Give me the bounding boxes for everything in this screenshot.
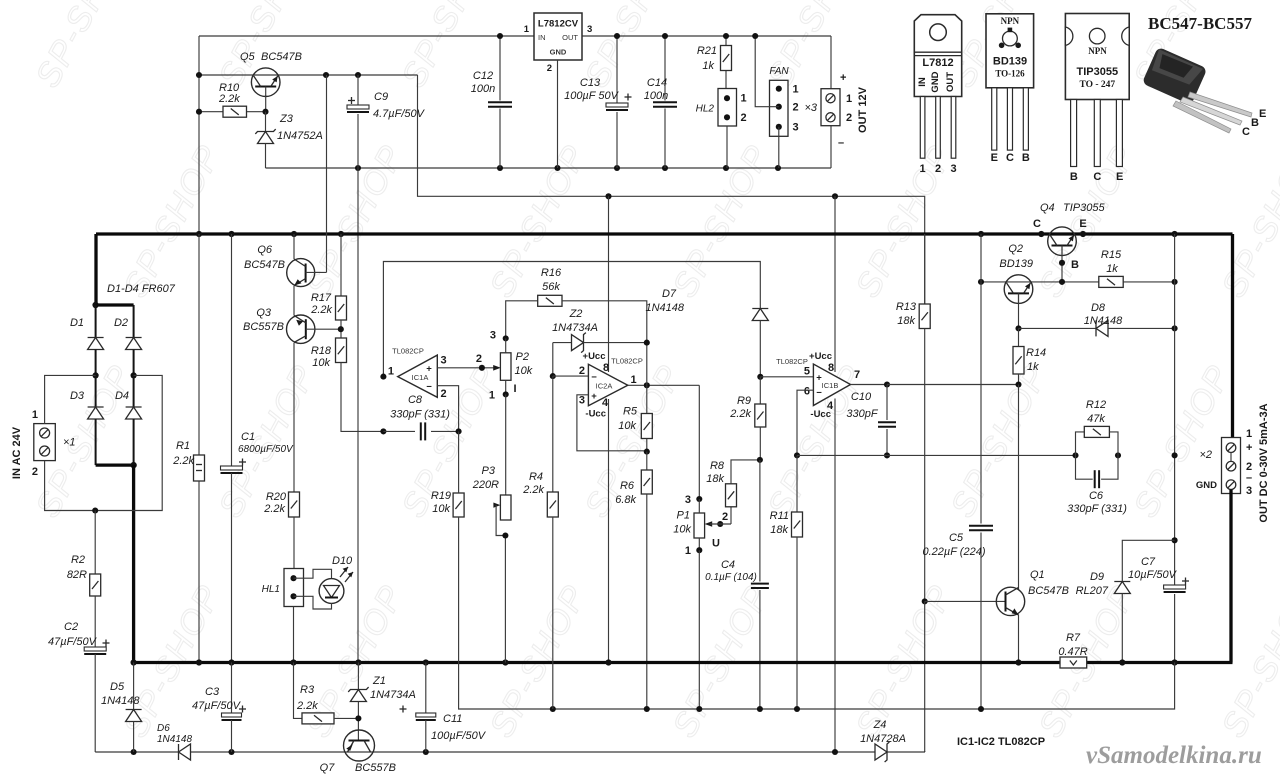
- svg-text:3: 3: [441, 355, 447, 367]
- wire IC2A out to P1 top: [698, 385, 700, 499]
- svg-text:L7812: L7812: [922, 57, 953, 69]
- svg-text:R1: R1: [176, 440, 190, 452]
- capacitor C4: [759, 460, 761, 582]
- capacitor C8: [380, 428, 386, 434]
- wire Q6 collector to 12V: [326, 75, 328, 272]
- svg-text:3: 3: [490, 330, 496, 342]
- svg-text:Z2: Z2: [569, 308, 583, 320]
- node Z1 R3 junction: [355, 715, 361, 721]
- svg-text:C: C: [1242, 126, 1250, 138]
- node Q2 base D8 junction: [1015, 325, 1021, 331]
- svg-text:1N4148: 1N4148: [157, 734, 192, 745]
- svg-text:R16: R16: [541, 267, 562, 279]
- svg-text:100n: 100n: [644, 90, 668, 102]
- node IC1B output: [884, 381, 890, 387]
- resistor R8: [730, 507, 732, 524]
- svg-text:1: 1: [524, 24, 530, 35]
- svg-text:OUT: OUT: [562, 33, 578, 42]
- svg-text:R6: R6: [620, 480, 635, 492]
- svg-text:OUT DC 0-30V 5mA-3A: OUT DC 0-30V 5mA-3A: [1258, 403, 1270, 522]
- svg-text:2.2k: 2.2k: [729, 408, 751, 420]
- svg-text:TIP3055: TIP3055: [1063, 202, 1105, 214]
- node main bus junctions: [196, 231, 202, 237]
- svg-text:Q5: Q5: [240, 51, 256, 63]
- svg-text:47k: 47k: [1087, 413, 1105, 425]
- svg-text:2: 2: [476, 353, 482, 365]
- svg-text:+: +: [840, 72, 846, 84]
- svg-text:0.47R: 0.47R: [1058, 646, 1087, 658]
- svg-text:Q7: Q7: [320, 762, 336, 774]
- wire left vertical from rail to main bus: [198, 36, 200, 234]
- svg-text:BC547B: BC547B: [244, 259, 285, 271]
- svg-text:Z3: Z3: [279, 113, 294, 125]
- svg-text:+: +: [426, 364, 432, 375]
- svg-text:10k: 10k: [312, 357, 330, 369]
- svg-text:56k: 56k: [542, 281, 560, 293]
- wire lower rail y752: [95, 751, 178, 753]
- wire X1 pin2 loop to bridge right: [45, 375, 163, 510]
- svg-text:2: 2: [935, 163, 941, 175]
- svg-text:E: E: [991, 152, 998, 164]
- svg-text:vSamodelkina.ru: vSamodelkina.ru: [1086, 742, 1262, 769]
- svg-text:IN: IN: [538, 33, 546, 42]
- svg-text:×3: ×3: [804, 102, 817, 114]
- node Q1 base junction: [922, 598, 928, 604]
- svg-text:E: E: [1259, 108, 1266, 120]
- svg-text:1: 1: [32, 409, 38, 421]
- svg-text:18k: 18k: [897, 315, 915, 327]
- svg-text:−: −: [816, 388, 822, 399]
- package TIP3055 TO-247: [1065, 14, 1129, 100]
- wire +Ucc stub IC2A pin8: [608, 196, 610, 372]
- svg-text:−: −: [591, 372, 597, 383]
- svg-text:BC557B: BC557B: [355, 762, 396, 774]
- terminal X3 OUT 12V: [821, 89, 840, 126]
- svg-text:1: 1: [919, 163, 925, 175]
- wire Z2 left to IC2A pin2: [552, 343, 554, 377]
- diode D7: [752, 308, 768, 310]
- wire L7812 GND pin: [557, 60, 559, 168]
- diode D4: [133, 375, 135, 407]
- svg-text:0.22µF (224): 0.22µF (224): [922, 546, 985, 558]
- svg-text:2: 2: [579, 365, 585, 377]
- capacitor C3: [231, 663, 233, 714]
- svg-text:1: 1: [631, 374, 637, 386]
- svg-text:R13: R13: [896, 301, 917, 313]
- svg-text:220R: 220R: [472, 479, 499, 491]
- svg-text:D3: D3: [70, 390, 85, 402]
- svg-text:1N4734A: 1N4734A: [552, 322, 598, 334]
- wire bus to X2 plus: [1231, 234, 1234, 438]
- wire IC1A pin3 to P2 wiper: [437, 367, 497, 369]
- resistor R9: [759, 377, 761, 404]
- svg-text:R8: R8: [710, 460, 725, 472]
- svg-text:P2: P2: [516, 351, 529, 363]
- node bottom bus junctions: [131, 659, 137, 665]
- svg-text:2.2k: 2.2k: [263, 503, 285, 515]
- svg-text:C14: C14: [647, 77, 667, 89]
- resistor R4: [552, 376, 554, 492]
- svg-text:3: 3: [950, 163, 956, 175]
- svg-text:2.2k: 2.2k: [296, 700, 318, 712]
- svg-text:6: 6: [804, 385, 810, 397]
- wire IC1B output: [851, 384, 888, 386]
- svg-text:10k: 10k: [673, 524, 691, 536]
- svg-text:GND: GND: [930, 71, 941, 92]
- svg-text:E: E: [1116, 171, 1123, 183]
- svg-text:4.7µF/50V: 4.7µF/50V: [373, 108, 426, 120]
- svg-text:B: B: [1071, 259, 1079, 271]
- svg-text:BD139: BD139: [999, 258, 1033, 270]
- svg-text:U: U: [712, 538, 720, 550]
- wire X1 pin1 to bridge: [45, 375, 96, 423]
- svg-text:3: 3: [587, 24, 592, 35]
- svg-text:10µF/50V: 10µF/50V: [1128, 569, 1178, 581]
- wire bridge bottom link: [96, 463, 134, 466]
- capacitor C5: [980, 282, 982, 524]
- resistor R19: [453, 493, 464, 517]
- svg-text:C: C: [1006, 152, 1014, 164]
- wire to IC1B pin5: [760, 376, 813, 378]
- wire bridge feed from bus: [94, 234, 97, 305]
- wire minus rail y709: [459, 663, 1175, 710]
- regulator U1 L7812CV box: [534, 13, 582, 60]
- svg-text:1N4734A: 1N4734A: [370, 689, 416, 701]
- wire P1 wiper to R8: [717, 521, 723, 527]
- svg-text:C: C: [1033, 218, 1041, 230]
- svg-text:5: 5: [804, 366, 810, 378]
- wire Q5 collector-emitter rail y75: [199, 74, 418, 76]
- svg-text:Q6: Q6: [257, 244, 273, 256]
- svg-text:6800µF/50V: 6800µF/50V: [238, 444, 294, 455]
- svg-text:I: I: [514, 383, 517, 395]
- LED D10: [294, 569, 332, 579]
- wire R14 node to Q1 collector: [1018, 385, 1020, 591]
- svg-text:1N4148: 1N4148: [645, 302, 684, 314]
- svg-text:C9: C9: [374, 91, 388, 103]
- svg-text:2: 2: [441, 388, 447, 400]
- zener diode Z4: [885, 742, 890, 762]
- svg-text:1N4148: 1N4148: [101, 695, 140, 707]
- wire FAN pin2 to rail: [755, 36, 779, 107]
- svg-text:18k: 18k: [706, 473, 724, 485]
- capacitor C13: [616, 36, 618, 103]
- svg-text:C4: C4: [721, 559, 735, 571]
- wire Q3 collector down to R20: [293, 343, 295, 492]
- svg-text:–: –: [1246, 472, 1252, 484]
- wire Q6 Q3 R20 branch from bus: [293, 234, 295, 259]
- diode D1: [95, 305, 97, 338]
- wire IC2A pin3 loop: [577, 395, 647, 451]
- svg-text:100µF 50V: 100µF 50V: [564, 90, 620, 102]
- svg-text:3: 3: [579, 395, 585, 407]
- wire output node vertical: [646, 343, 648, 386]
- svg-text:BC547B: BC547B: [261, 51, 302, 63]
- node R11 pin6 junction: [794, 452, 800, 458]
- wire IC2A pin4 to bus: [608, 399, 610, 663]
- terminal X1 IN AC 24V: [34, 424, 56, 461]
- svg-text:1k: 1k: [702, 60, 714, 72]
- wire feedback rail y455: [797, 454, 1076, 456]
- zener diode Z2: [553, 342, 572, 344]
- svg-text:3: 3: [1246, 485, 1252, 497]
- node bridge top: [92, 302, 98, 308]
- svg-text:C13: C13: [580, 77, 601, 89]
- wire long vertical x358 to bottom bus: [357, 168, 359, 663]
- node +Ucc taps: [605, 193, 611, 199]
- node R2 tap: [92, 507, 98, 513]
- svg-text:C7: C7: [1141, 556, 1156, 568]
- svg-text:R3: R3: [300, 684, 315, 696]
- svg-text:1k: 1k: [1106, 263, 1118, 275]
- svg-text:1: 1: [741, 93, 747, 105]
- svg-text:330pF: 330pF: [846, 408, 878, 420]
- svg-text:8: 8: [828, 362, 834, 374]
- node minus rail junctions: [550, 706, 556, 712]
- zener diode Z3: [265, 112, 267, 132]
- svg-text:2.2k: 2.2k: [218, 93, 240, 105]
- resistor R18: [336, 338, 347, 363]
- wire +Ucc stub IC1B pin8: [834, 196, 836, 372]
- svg-text:2.2k: 2.2k: [310, 304, 332, 316]
- node Q3 base junction: [338, 326, 344, 332]
- svg-text:2.2k: 2.2k: [172, 455, 194, 467]
- svg-text:IN: IN: [917, 77, 928, 87]
- node sense junction: [1172, 452, 1178, 458]
- lamp HL2 connector box: [718, 89, 737, 127]
- node R14 bottom junction: [1015, 381, 1021, 387]
- svg-text:C11: C11: [443, 713, 462, 725]
- svg-text:BC547B: BC547B: [1028, 585, 1069, 597]
- node R15 right junction: [1172, 279, 1178, 285]
- wire P3 bottom to bus: [504, 536, 506, 663]
- svg-text:330pF (331): 330pF (331): [390, 409, 450, 421]
- wire R13 down to Z4 corner: [924, 601, 926, 752]
- op-amp U3 IC2A: [588, 364, 627, 405]
- svg-text:C6: C6: [1089, 490, 1104, 502]
- zener diode Z1: [357, 663, 359, 690]
- svg-text:HL2: HL2: [696, 104, 715, 115]
- svg-text:C12: C12: [473, 70, 493, 82]
- svg-text:D7: D7: [662, 288, 677, 300]
- svg-text:1: 1: [489, 390, 495, 402]
- svg-text:OUT: OUT: [945, 72, 956, 92]
- svg-text:R14: R14: [1026, 347, 1046, 359]
- svg-text:P1: P1: [677, 510, 690, 522]
- svg-text:R17: R17: [311, 292, 332, 304]
- svg-text:+Ucc: +Ucc: [809, 351, 832, 362]
- capacitor C1: [231, 234, 233, 466]
- wire HL2 pin2 to rail: [726, 126, 728, 168]
- wire Q4 base: [1061, 246, 1063, 282]
- svg-text:R21: R21: [697, 45, 717, 57]
- svg-text:2: 2: [846, 112, 852, 124]
- svg-text:47µF/50V: 47µF/50V: [192, 700, 242, 712]
- svg-text:B: B: [1251, 117, 1259, 129]
- wire P1 bottom to minus rail: [698, 550, 700, 709]
- wire FAN pin3 to rail: [778, 127, 780, 168]
- wire Q2 base down: [1018, 294, 1020, 329]
- svg-text:3: 3: [685, 494, 691, 506]
- transistor Q3: [287, 315, 315, 343]
- svg-text:NPN: NPN: [1088, 46, 1107, 56]
- svg-text:+: +: [816, 373, 822, 384]
- svg-text:D6: D6: [157, 723, 170, 734]
- node IC1A output: [380, 374, 386, 380]
- svg-text:C10: C10: [851, 391, 872, 403]
- svg-text:Q4: Q4: [1040, 202, 1055, 214]
- svg-text:R19: R19: [431, 490, 451, 502]
- svg-text:D2: D2: [114, 317, 128, 329]
- resistor R21: [725, 36, 727, 46]
- resistor R16: [506, 301, 538, 339]
- svg-text:C5: C5: [949, 532, 964, 544]
- svg-text:7: 7: [854, 369, 860, 381]
- svg-text:82R: 82R: [67, 569, 87, 581]
- wire 12V bottom rail y168: [266, 167, 832, 169]
- svg-text:IN AC 24V: IN AC 24V: [11, 426, 23, 479]
- transistor Q2 BD139: [1004, 275, 1033, 304]
- wire bridge minus to bottom bus: [132, 465, 135, 662]
- svg-text:R2: R2: [71, 554, 85, 566]
- svg-text:R20: R20: [266, 491, 287, 503]
- capacitor C11: [425, 663, 427, 714]
- svg-text:C3: C3: [205, 686, 220, 698]
- transistor Q1 BC547B: [996, 587, 1024, 615]
- svg-text:OUT 12V: OUT 12V: [857, 86, 869, 133]
- wire main positive bus y234: [96, 232, 1233, 235]
- capacitor C9: [357, 75, 359, 105]
- resistor R14: [1018, 328, 1020, 346]
- svg-text:0.1µF (104): 0.1µF (104): [705, 572, 757, 583]
- wire IC1B pin4 down: [834, 399, 836, 753]
- svg-text:B: B: [1070, 171, 1078, 183]
- wire IC1A pin2 to C8: [437, 386, 458, 432]
- wire 12V top rail: [199, 35, 534, 37]
- transistor Q5: [251, 68, 280, 97]
- wire lower rail corner to R13 line: [924, 751, 926, 752]
- transistor Q7 BC557B: [344, 730, 375, 761]
- svg-text:TO-126: TO-126: [995, 69, 1025, 79]
- svg-text:GND: GND: [550, 48, 567, 57]
- capacitor C14: [664, 36, 666, 101]
- svg-text:BC547-BC557: BC547-BC557: [1148, 14, 1252, 33]
- svg-text:C2: C2: [64, 621, 78, 633]
- node Q4 base R15 junction: [1059, 279, 1065, 285]
- wire Q6 emitter to Q3: [293, 286, 295, 316]
- diode D3: [95, 375, 97, 407]
- svg-text:2: 2: [793, 102, 799, 114]
- svg-text:1N4752A: 1N4752A: [277, 130, 323, 142]
- node lower rail junctions: [131, 749, 137, 755]
- capacitor C10: [886, 385, 888, 421]
- svg-text:R7: R7: [1066, 632, 1081, 644]
- svg-text:Q3: Q3: [256, 307, 272, 319]
- lamp HL1 box: [284, 569, 304, 607]
- wire output to R14 node: [887, 384, 1019, 386]
- node R10 junctions: [196, 109, 202, 115]
- svg-text:2: 2: [722, 511, 728, 523]
- wire Q1 base: [925, 600, 1006, 602]
- wire X2 GND to bottom bus: [1229, 490, 1232, 663]
- node D8 right junction: [1172, 325, 1178, 331]
- terminal X2 OUT DC: [1222, 438, 1241, 494]
- diode D6: [178, 744, 180, 760]
- svg-text:1N4728A: 1N4728A: [860, 733, 906, 745]
- svg-text:C: C: [1093, 171, 1101, 183]
- svg-text:×1: ×1: [63, 437, 76, 449]
- svg-text:RL207: RL207: [1076, 585, 1109, 597]
- node R9 R8 C4 junction: [757, 457, 763, 463]
- svg-text:HL1: HL1: [262, 584, 280, 595]
- wire D9 branch: [1172, 537, 1178, 543]
- fan connector FAN box: [770, 80, 789, 136]
- resistor R10: [199, 111, 223, 113]
- op-amp U4 IC1B: [813, 364, 850, 406]
- wire output sense vertical x1174: [1174, 234, 1176, 586]
- svg-text:1k: 1k: [1027, 361, 1039, 373]
- potentiometer P3: [505, 494, 507, 495]
- svg-text:R9: R9: [737, 395, 751, 407]
- transistor Q6: [287, 259, 315, 287]
- svg-text:+: +: [1246, 442, 1252, 454]
- svg-text:100µF/50V: 100µF/50V: [431, 730, 487, 742]
- svg-text:TL082CP: TL082CP: [611, 357, 643, 366]
- resistor R7: [1060, 657, 1087, 668]
- svg-text:330pF (331): 330pF (331): [1067, 503, 1127, 515]
- svg-text:IC1-IC2 TL082CP: IC1-IC2 TL082CP: [957, 736, 1045, 748]
- svg-text:10k: 10k: [432, 503, 450, 515]
- svg-text:10k: 10k: [515, 365, 533, 377]
- diode D5: [133, 663, 135, 710]
- svg-text:8: 8: [603, 362, 609, 374]
- svg-text:2.2k: 2.2k: [522, 484, 544, 496]
- svg-text:NPN: NPN: [1001, 16, 1020, 26]
- package L7812 TO-220: [914, 15, 961, 97]
- wire IC1B pin6 loop: [797, 390, 813, 455]
- resistor R5: [646, 385, 648, 413]
- svg-text:1: 1: [793, 84, 799, 96]
- svg-text:D5: D5: [110, 681, 125, 693]
- node IC1B plus input: [757, 374, 763, 380]
- svg-text:TIP3055: TIP3055: [1077, 66, 1119, 78]
- svg-text:R18: R18: [311, 345, 332, 357]
- package BD139 TO-126: [986, 14, 1034, 88]
- svg-text:2: 2: [741, 112, 747, 124]
- svg-text:GND: GND: [1196, 480, 1217, 491]
- wire bottom common bus y662: [134, 661, 1060, 664]
- node bridge bottom: [130, 462, 136, 468]
- svg-text:R15: R15: [1101, 249, 1122, 261]
- svg-text:1: 1: [685, 545, 691, 557]
- svg-text:2: 2: [32, 466, 38, 478]
- svg-text:R11: R11: [770, 510, 789, 522]
- potentiometer P2: [503, 335, 509, 341]
- capacitor C12: [499, 36, 501, 101]
- svg-text:Z4: Z4: [873, 719, 887, 731]
- svg-text:D9: D9: [1090, 571, 1104, 583]
- svg-text:TL082CP: TL082CP: [392, 347, 424, 356]
- svg-text:D1-D4 FR607: D1-D4 FR607: [107, 283, 176, 295]
- node bridge mid-right: [131, 372, 137, 378]
- svg-text:C1: C1: [241, 431, 255, 443]
- svg-text:D10: D10: [332, 555, 353, 567]
- resistor R11: [796, 455, 798, 512]
- svg-text:TO - 247: TO - 247: [1079, 80, 1115, 90]
- svg-text:−: −: [426, 382, 432, 393]
- resistor R17: [340, 234, 342, 296]
- svg-text:D4: D4: [115, 390, 129, 402]
